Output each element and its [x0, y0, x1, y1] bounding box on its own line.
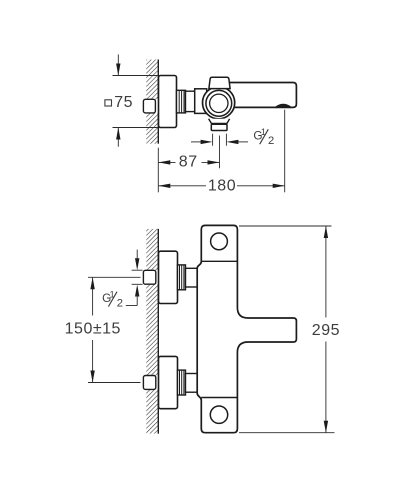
- svg-text:295: 295: [312, 322, 340, 339]
- svg-text:75: 75: [114, 94, 133, 111]
- svg-text:150±15: 150±15: [65, 320, 121, 337]
- svg-text:2: 2: [268, 135, 274, 147]
- svg-text:180: 180: [208, 178, 236, 195]
- svg-text:87: 87: [179, 154, 198, 171]
